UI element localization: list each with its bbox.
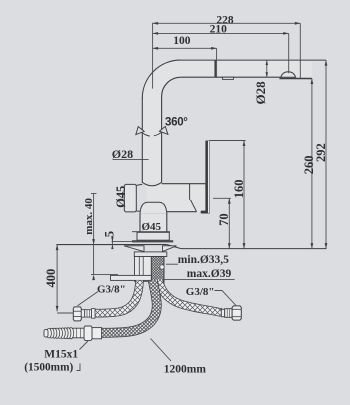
svg-text:G3/8": G3/8" bbox=[97, 284, 126, 296]
leader max underline bbox=[163, 279, 235, 281]
shank detail circle bbox=[160, 265, 164, 269]
spout outer elbow curve bbox=[142, 60, 180, 99]
dim 210 line bbox=[153, 32, 289, 34]
aerator dome bbox=[281, 72, 296, 78]
arrows 210 bbox=[153, 32, 159, 35]
spout top edge + 292 extension line bbox=[181, 59, 326, 61]
spray head clip tab bbox=[223, 77, 234, 79]
swivel arrow right bbox=[154, 126, 168, 135]
svg-text:Ø45: Ø45 bbox=[114, 186, 128, 208]
spout pipe and riser fill bbox=[142, 60, 312, 182]
svg-text:G3/8": G3/8" bbox=[186, 286, 215, 298]
countertop line left bbox=[56, 244, 167, 246]
riser right edge bbox=[161, 96, 163, 183]
leader G3/8 right bbox=[215, 291, 237, 306]
ext line plate bbox=[112, 241, 133, 243]
dim 292 line bbox=[325, 60, 327, 249]
svg-text:160: 160 bbox=[232, 179, 246, 198]
svg-text:100: 100 bbox=[173, 35, 191, 47]
flange base plate bbox=[132, 240, 173, 242]
spout bottom edge bbox=[181, 76, 281, 78]
dimension arrows bbox=[56, 22, 328, 312]
shank threaded strip bbox=[151, 257, 164, 285]
arrows max40 bbox=[92, 239, 95, 245]
svg-text:210: 210 bbox=[210, 24, 228, 36]
svg-text:360°: 360° bbox=[165, 117, 188, 129]
arrows 160 bbox=[243, 141, 246, 147]
dim 400 line bbox=[56, 245, 58, 312]
dim 160 line bbox=[243, 141, 245, 249]
aerator face bar bbox=[279, 78, 312, 80]
body bottom edge bbox=[147, 211, 197, 213]
spray head seam bbox=[214, 60, 216, 78]
base dome bbox=[140, 202, 167, 214]
shank body bbox=[135, 257, 165, 282]
handle foot bbox=[201, 211, 210, 214]
label Ø28 riser underline bbox=[113, 158, 149, 160]
handle hub shadow bbox=[205, 183, 209, 189]
left fitting G3/8 bbox=[73, 307, 81, 321]
ext line 210 bbox=[288, 33, 290, 73]
leader M15x1 bbox=[80, 341, 89, 350]
spray hose end fittings bbox=[92, 328, 102, 339]
washer wedge right bbox=[163, 246, 177, 252]
dim 260 line bbox=[311, 79, 313, 249]
body flare bottom bbox=[136, 211, 146, 212]
ext line 100 bbox=[216, 48, 218, 78]
swivel arrow left bbox=[136, 127, 150, 137]
leader 1200mm bbox=[151, 339, 172, 362]
arrows 292 bbox=[325, 60, 328, 66]
dim 70 line bbox=[228, 198, 230, 248]
arrows 228 bbox=[153, 22, 159, 25]
dim 228 line bbox=[153, 22, 301, 24]
left supply hose bbox=[95, 281, 140, 314]
leader G3/8 left bbox=[78, 292, 99, 306]
right supply hose bbox=[159, 280, 222, 313]
body top edge bbox=[162, 183, 206, 185]
dim max40 line bbox=[93, 194, 95, 275]
body right end line bbox=[189, 184, 191, 200]
spring tip bbox=[44, 329, 48, 337]
svg-text:260: 260 bbox=[302, 156, 316, 175]
svg-text:Ø28: Ø28 bbox=[112, 147, 133, 161]
handle lever bbox=[205, 141, 207, 214]
svg-text:Ø28: Ø28 bbox=[253, 81, 268, 105]
arrows Ø28 tip bbox=[266, 60, 269, 65]
svg-text:M15x1: M15x1 bbox=[44, 348, 78, 360]
dim 5 line bbox=[111, 237, 113, 248]
dim Ø28 tip line bbox=[266, 60, 268, 77]
base column bbox=[140, 213, 167, 232]
riser base joint arc bbox=[142, 182, 161, 185]
svg-text:min.Ø33,5: min.Ø33,5 bbox=[178, 254, 229, 266]
arrows 5 bbox=[111, 237, 113, 242]
dimension set bbox=[57, 23, 326, 371]
body fill bbox=[147, 184, 206, 212]
countertop line right bbox=[181, 248, 327, 250]
dim 100 line bbox=[153, 47, 217, 49]
svg-text:5: 5 bbox=[102, 230, 117, 237]
hose end leader bbox=[57, 312, 73, 314]
arrows 260 bbox=[311, 79, 314, 85]
escutcheon flange bbox=[137, 232, 169, 240]
arrows 100 bbox=[153, 47, 159, 50]
handle cone diagonal bbox=[191, 200, 197, 212]
washer wedge left bbox=[124, 246, 144, 252]
riser left edge bbox=[141, 98, 143, 183]
countertop break diagonal bbox=[167, 245, 181, 249]
svg-text:max. 40: max. 40 bbox=[83, 198, 95, 235]
svg-text:292: 292 bbox=[314, 143, 328, 162]
riser centerline extension bbox=[152, 23, 154, 89]
washer block bbox=[134, 252, 167, 257]
svg-text:1200mm: 1200mm bbox=[164, 363, 207, 375]
spout inner elbow curve bbox=[162, 77, 181, 96]
body left cap bbox=[124, 184, 136, 212]
right fitting G3/8 bbox=[221, 309, 224, 316]
arrows 400 bbox=[56, 245, 59, 251]
conical spring bbox=[46, 328, 74, 339]
leader min bbox=[166, 263, 178, 265]
mounting bracket bbox=[111, 275, 152, 280]
arrows 70 bbox=[228, 198, 231, 204]
ext line bracket bbox=[91, 274, 118, 276]
svg-text:400: 400 bbox=[44, 269, 58, 288]
svg-text:(1500mm): (1500mm) bbox=[24, 361, 73, 373]
spray hose 1200mm bbox=[102, 281, 157, 333]
svg-text:70: 70 bbox=[217, 213, 231, 226]
svg-text:max.Ø39: max.Ø39 bbox=[187, 268, 232, 280]
ext line 70 bbox=[213, 197, 231, 199]
ext line handle top bbox=[210, 140, 246, 142]
ext line 228 bbox=[299, 23, 301, 78]
leader 1500mm bracket bbox=[77, 364, 81, 371]
